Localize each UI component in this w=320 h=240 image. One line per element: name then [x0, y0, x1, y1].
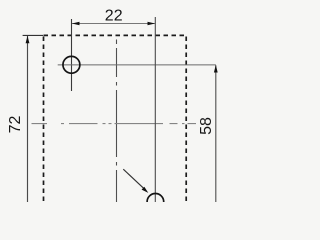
horizontal centerline of plate (dash-dot) — [32, 123, 197, 125]
leader arrowhead — [142, 187, 149, 193]
dimension 72 up arrowhead — [26, 36, 30, 44]
dimension 22 line — [72, 23, 155, 25]
hole H1 circle — [63, 56, 80, 73]
dimension 58 line — [215, 65, 217, 202]
hole H1 vertical centerline / extension line — [71, 19, 73, 91]
plate outline top edge (hidden/dashed) — [44, 34, 188, 36]
dimension 22 left arrowhead — [72, 22, 80, 26]
dimension 72 top extension line — [23, 34, 43, 36]
hole H2 vertical centerline / extension line — [154, 17, 156, 202]
dimension 58 up arrowhead — [214, 65, 218, 73]
hole H2 circle (cut by bottom edge) — [147, 194, 164, 211]
hole H1 horizontal centerline extended to 58-dim — [58, 64, 216, 66]
plate outline left edge (hidden/dashed) — [43, 37, 45, 203]
paper background — [0, 0, 259, 202]
dimension 72 line — [27, 36, 29, 202]
plate outline right edge (hidden/dashed) — [185, 37, 187, 203]
svg-text:58: 58 — [198, 117, 215, 135]
svg-text:22: 22 — [105, 7, 123, 24]
leader line to hole H2 — [123, 169, 144, 189]
vertical centerline of plate (dash-dot) — [116, 40, 118, 203]
dimension 22 right arrowhead — [148, 22, 156, 26]
svg-text:72: 72 — [7, 116, 24, 134]
